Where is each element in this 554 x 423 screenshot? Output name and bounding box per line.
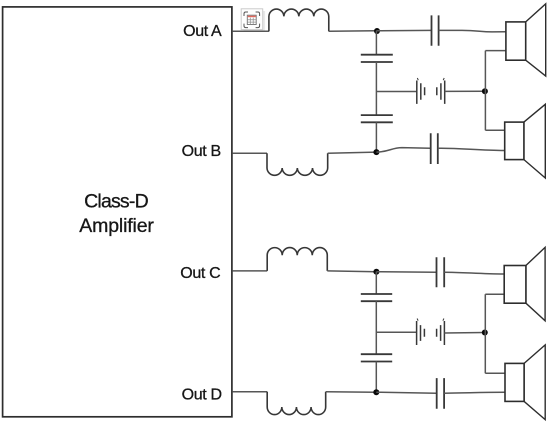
wire mid branch to capacitor C4 [376, 91, 416, 93]
wire node D to capacitor C6 [376, 271, 436, 274]
capacitor C2 (shunt upper) [361, 55, 393, 62]
wire C6 to speaker SPK3 [444, 272, 504, 274]
capacitor C10 (series, Out D) [437, 378, 444, 409]
svg-text:Out A: Out A [183, 23, 222, 40]
wire C9 to node E [444, 332, 484, 335]
inductor L3 [267, 248, 327, 271]
speaker SPK3 [504, 247, 545, 320]
svg-text:Class-D: Class-D [84, 191, 148, 213]
capacitor C9 (back-to-back polarized pair) [417, 319, 445, 346]
wire return to SPK3 lower terminal [485, 293, 504, 295]
speaker SPK4 [505, 345, 545, 420]
wire C7 to C8 [375, 301, 377, 354]
inductor L4 [267, 392, 325, 415]
svg-text:Out C: Out C [180, 265, 220, 282]
wire speaker return vertical SPK3-SPK4 [484, 294, 486, 373]
capacitor C8 (shunt lower) [361, 354, 392, 361]
wire C4 to node B [445, 90, 485, 92]
wire return to SPK2 upper terminal [485, 129, 504, 131]
svg-text:Out B: Out B [182, 143, 221, 160]
pin label Out B [182, 143, 221, 160]
capacitor C3 (shunt lower) [361, 115, 393, 122]
inductor L1 [269, 9, 329, 31]
wire C5 to speaker SPK2 [438, 148, 505, 150]
wire L2 to node C [328, 152, 377, 153]
capacitor C6 (series, Out C) [437, 257, 445, 287]
svg-text:Out D: Out D [182, 387, 222, 404]
amplifier box U1 (Class-D Amplifier) [3, 7, 232, 417]
node E (junction dot on speaker return) [482, 330, 488, 336]
wire Out D: box to inductor L4 [232, 391, 267, 393]
pin label Out D [182, 387, 222, 404]
node F (junction dot) [373, 389, 379, 395]
capacitor C4 (back-to-back polarized pair) [417, 78, 445, 104]
wire C10 to speaker SPK4 [444, 391, 505, 394]
inductor L2 [267, 153, 328, 175]
node C (junction dot) [373, 149, 379, 155]
wire node A to capacitor C1 [376, 29, 431, 31]
wire node A down to capacitor C2 [375, 31, 377, 55]
capacitor C5 (series, Out B) [431, 133, 438, 164]
pin label Out A [183, 23, 222, 40]
capacitor C7 (shunt upper) [361, 294, 392, 301]
wire node F to capacitor C10 [376, 392, 436, 393]
wire mid branch to capacitor C9 [376, 331, 416, 333]
wire Out C: box to inductor L3 [232, 270, 267, 272]
wire return to SPK1 lower terminal [485, 50, 506, 52]
svg-text:Amplifier: Amplifier [79, 215, 154, 237]
wire L1 to node A [329, 30, 377, 33]
wire L3 to node D [327, 270, 376, 273]
wire node C to capacitor C5 [376, 148, 430, 153]
capacitor C1 (series, Out A) [432, 15, 439, 45]
node D (junction dot) [373, 269, 379, 275]
wire C3 to node C [375, 122, 377, 152]
node A (junction dot) [374, 28, 380, 34]
wire speaker return vertical SPK1-SPK2 [484, 51, 486, 131]
wire C1 to speaker SPK1 [439, 30, 506, 32]
paste-options icon button (top, with table glyph) [241, 9, 265, 32]
wire L4 to node F [326, 391, 377, 393]
wire node D down to capacitor C7 [375, 272, 377, 294]
speaker SPK2 [505, 104, 546, 178]
pin label Out C [180, 265, 220, 282]
node B (junction dot on speaker return) [482, 88, 488, 94]
label Class-D Amplifier [79, 191, 154, 237]
wire C8 to node F [375, 362, 377, 393]
wire Out A: box to inductor L1 [232, 30, 269, 32]
wire Out B: box to inductor L2 [232, 152, 267, 154]
wire return to SPK4 upper terminal [485, 372, 505, 374]
wire C2 to C3 [375, 62, 377, 115]
speaker SPK1 [506, 4, 546, 76]
